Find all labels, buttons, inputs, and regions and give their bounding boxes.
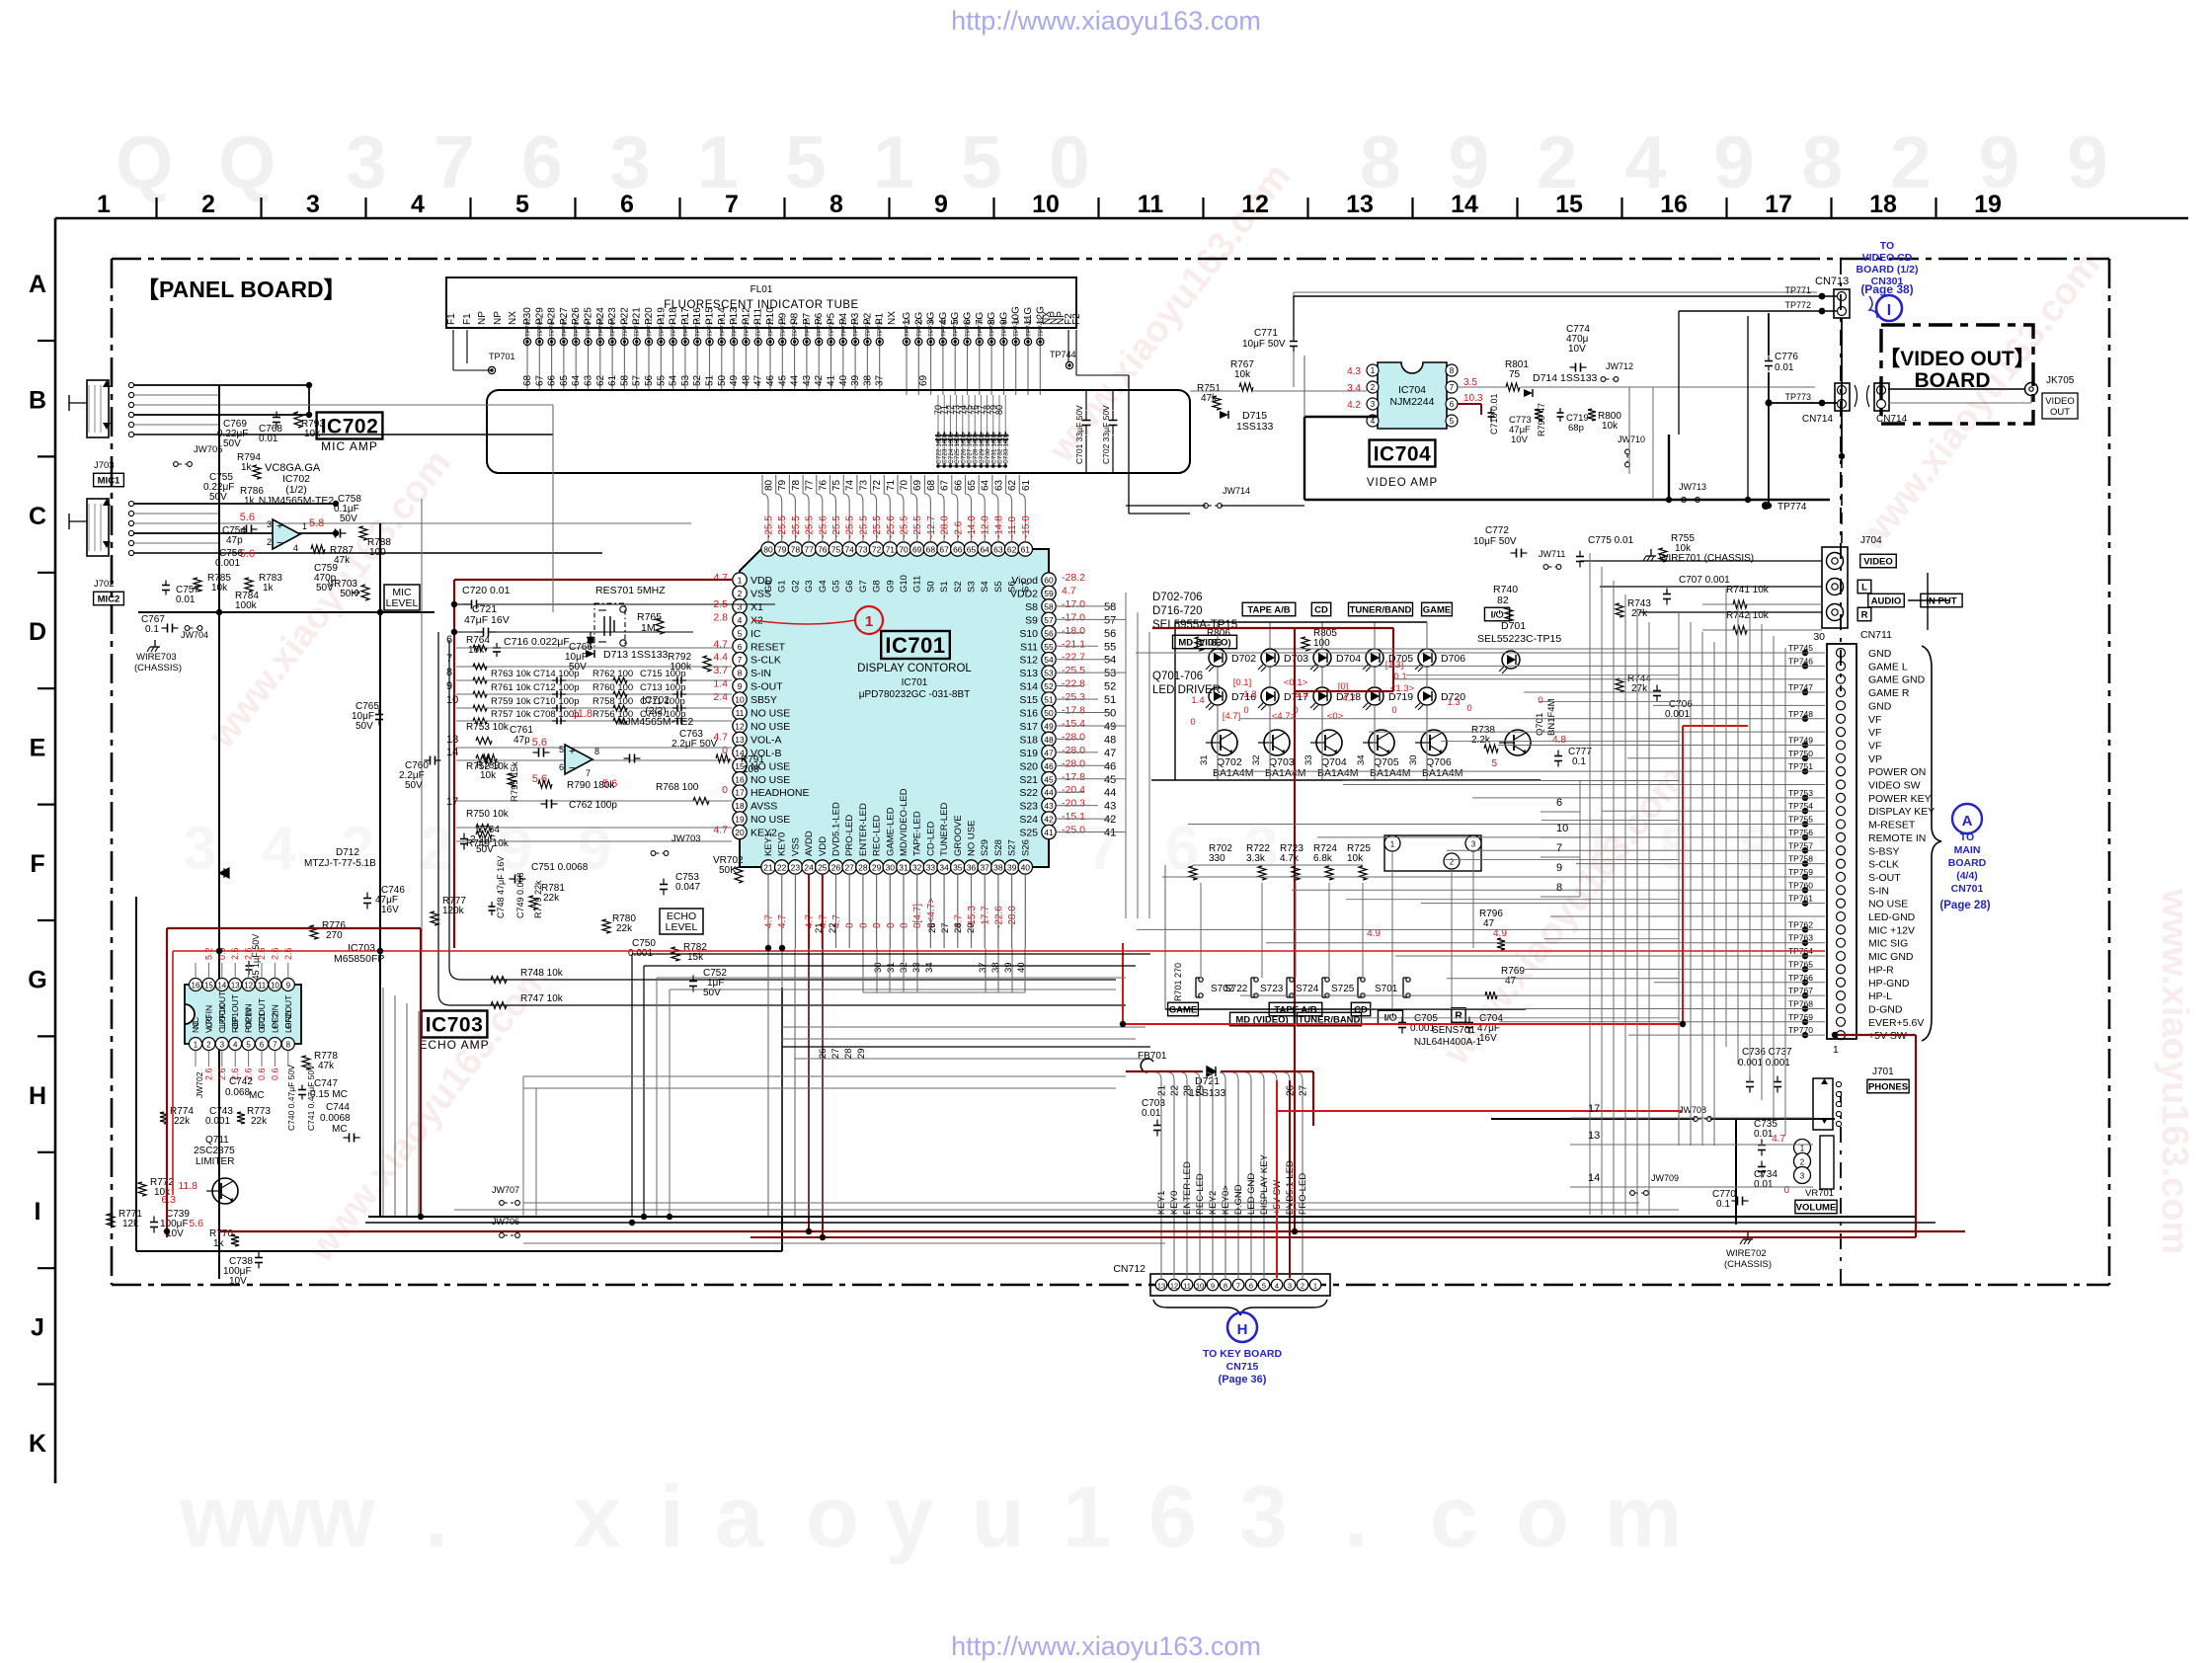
svg-text:CN714: CN714 [1802, 414, 1834, 425]
LED D705 [1366, 649, 1383, 667]
svg-text:S14: S14 [1019, 681, 1038, 693]
svg-text:TP722: TP722 [768, 317, 775, 337]
CN712 wire bundle [1160, 1080, 1162, 1278]
svg-text:54: 54 [1044, 655, 1054, 665]
svg-text:1k: 1k [241, 462, 253, 473]
svg-text:WIRE703: WIRE703 [136, 652, 177, 663]
svg-text:-28.0: -28.0 [1007, 906, 1018, 928]
svg-text:9: 9 [1817, 815, 1851, 883]
svg-text:68p: 68p [1568, 423, 1584, 434]
svg-text:D702: D702 [1231, 653, 1256, 665]
svg-text:7: 7 [586, 768, 591, 778]
svg-text:S13: S13 [1019, 668, 1038, 679]
svg-text:42: 42 [814, 374, 825, 386]
blue callout circle A [1952, 804, 1982, 833]
wire from F2 to right area [1128, 375, 1130, 514]
svg-text:TO: TO [1960, 831, 1974, 843]
svg-text:G1: G1 [777, 580, 788, 593]
svg-text:D714 1SS133: D714 1SS133 [1533, 372, 1598, 384]
svg-text:S27: S27 [1007, 839, 1018, 856]
svg-text:80: 80 [764, 479, 775, 491]
svg-text:10V: 10V [1568, 344, 1586, 355]
svg-text:【PANEL BOARD】: 【PANEL BOARD】 [136, 277, 347, 302]
svg-text:12: 12 [1241, 191, 1269, 218]
svg-text:0: 0 [1391, 705, 1396, 716]
svg-text:13: 13 [1346, 191, 1374, 218]
svg-text:NO USE: NO USE [750, 774, 790, 786]
IC703 top pins 16-9 [190, 979, 202, 991]
remote sensor SENS701 [1384, 835, 1481, 871]
svg-text:I: I [1887, 302, 1891, 319]
svg-text:KEY0: KEY0 [777, 832, 788, 856]
blue note TO MAIN BOARD [1948, 831, 1987, 895]
panel board dash-dot border [112, 259, 2109, 1285]
svg-text:JW706: JW706 [492, 1217, 519, 1227]
svg-text:TP747: TP747 [1788, 682, 1813, 692]
svg-text:KEY1: KEY1 [763, 832, 774, 856]
svg-text:4.7k: 4.7k [1280, 853, 1300, 864]
svg-text:53: 53 [1044, 669, 1054, 678]
svg-text:18: 18 [735, 801, 745, 811]
svg-text:R763 10k: R763 10k [491, 669, 531, 679]
svg-text:68: 68 [926, 479, 937, 491]
svg-text:47: 47 [1044, 748, 1054, 757]
svg-text:TP704: TP704 [549, 317, 556, 337]
IC701 top pin signal names [763, 575, 1031, 593]
maroon MD VIDEO wire [1152, 627, 1393, 629]
svg-text:46: 46 [765, 374, 776, 386]
svg-text:2.6: 2.6 [203, 1068, 213, 1080]
svg-text:BA1A4M: BA1A4M [1213, 767, 1253, 779]
top ruler ticks [155, 198, 157, 218]
svg-text:12: 12 [1170, 1282, 1178, 1291]
svg-text:44: 44 [1104, 787, 1116, 799]
transistor Q703 [1264, 730, 1290, 755]
svg-text:TO KEY BOARD: TO KEY BOARD [1203, 1348, 1283, 1360]
svg-text:4.7: 4.7 [777, 914, 788, 928]
svg-text:S5: S5 [993, 581, 1004, 593]
svg-text:13: 13 [735, 735, 745, 745]
svg-text:GND: GND [1868, 648, 1892, 660]
svg-text:VDD: VDD [818, 836, 829, 856]
svg-text:S-CLK: S-CLK [1868, 859, 1899, 871]
IC701 label box [881, 631, 950, 659]
svg-text:SEL55223C-TP15: SEL55223C-TP15 [1477, 633, 1561, 645]
svg-text:2.6: 2.6 [270, 947, 279, 960]
svg-text:S18: S18 [1019, 734, 1038, 746]
svg-text:TP760: TP760 [1788, 880, 1813, 890]
svg-text:C744: C744 [326, 1102, 350, 1113]
TUNER/BAND mode box lower [1298, 1012, 1362, 1026]
svg-text:4: 4 [738, 615, 743, 625]
svg-text:C742: C742 [229, 1076, 253, 1087]
svg-text:HP-L: HP-L [1868, 990, 1892, 1002]
svg-text:14: 14 [446, 747, 458, 758]
op-amp IC702a [273, 519, 300, 549]
svg-text:0.1: 0.1 [1716, 1199, 1730, 1210]
svg-text:-25.5: -25.5 [777, 515, 788, 538]
svg-text:S24: S24 [1019, 814, 1038, 826]
svg-text:o: o [1516, 1467, 1569, 1565]
svg-text:JW703: JW703 [671, 833, 701, 844]
LED D702 [1209, 649, 1226, 667]
svg-text:-25.6: -25.6 [818, 515, 829, 538]
svg-text:C701 33μF 50V: C701 33μF 50V [1074, 405, 1084, 464]
svg-text:BN1F4M: BN1F4M [1546, 698, 1557, 736]
svg-text:TUNER/BAND: TUNER/BAND [1350, 604, 1412, 615]
right zone vertical wires [1725, 589, 1727, 1047]
svg-text:7: 7 [1236, 1282, 1240, 1291]
svg-text:8: 8 [1738, 815, 1772, 883]
svg-text:4: 4 [1371, 417, 1376, 426]
svg-text:2.2k: 2.2k [1471, 735, 1491, 746]
svg-text:C707 0.001: C707 0.001 [1679, 575, 1730, 586]
svg-text:67: 67 [940, 479, 951, 491]
svg-text:WIRE701 (CHASSIS): WIRE701 (CHASSIS) [1659, 553, 1754, 564]
svg-text:4.7: 4.7 [713, 572, 728, 584]
svg-text:10k: 10k [154, 1187, 171, 1198]
svg-text:S16: S16 [1019, 708, 1038, 720]
left vertical bus wire [218, 385, 220, 1279]
svg-text:J702: J702 [94, 579, 115, 590]
svg-text:3: 3 [220, 1041, 225, 1050]
svg-text:TP767: TP767 [1788, 986, 1813, 995]
svg-text:D703: D703 [1284, 653, 1308, 665]
svg-text:3.5: 3.5 [1463, 377, 1477, 388]
svg-text:5: 5 [1262, 1282, 1266, 1291]
wire bundle left of IC701 wrap-around [449, 640, 1116, 980]
svg-text:MAIN: MAIN [1954, 844, 1981, 856]
svg-text:7: 7 [725, 191, 739, 218]
svg-text:C771: C771 [1254, 328, 1278, 339]
junction dots [216, 609, 222, 615]
FL01 pin name labels [446, 306, 1082, 325]
svg-text:G5: G5 [831, 580, 842, 593]
switch row bus wire [1165, 1008, 1526, 1010]
svg-text:DISPLAY CONTOROL: DISPLAY CONTOROL [857, 663, 972, 674]
svg-text:15: 15 [1555, 191, 1583, 218]
svg-text:-15.1: -15.1 [1062, 811, 1085, 823]
svg-text:S-CLK: S-CLK [750, 655, 781, 667]
IC701 bottom pins 21-40 [761, 860, 775, 874]
transistor Q702 [1212, 730, 1237, 755]
MIC LEVEL box [384, 585, 420, 610]
svg-text:−: − [276, 537, 282, 549]
svg-text:G: G [28, 966, 46, 993]
svg-text:TP707: TP707 [586, 317, 592, 337]
svg-text:MIC AMP: MIC AMP [321, 439, 378, 453]
chassis ground WIRE702 [1747, 1232, 1749, 1239]
svg-text:MIC2: MIC2 [98, 594, 120, 604]
display control IC701 body [740, 549, 1049, 867]
svg-text:27: 27 [830, 1048, 841, 1059]
connector CN714 left [1835, 383, 1850, 411]
svg-text:1: 1 [97, 191, 111, 218]
svg-text:TP735: TP735 [940, 317, 947, 337]
svg-text:2: 2 [738, 589, 743, 598]
svg-text:D713 1SS133: D713 1SS133 [603, 649, 669, 661]
svg-text:CD-LED: CD-LED [925, 821, 936, 856]
svg-text:ENTER-LED: ENTER-LED [858, 803, 869, 856]
svg-text:7: 7 [1556, 842, 1562, 854]
svg-text:R753 10k: R753 10k [466, 722, 510, 733]
svg-text:-25.0: -25.0 [1062, 825, 1085, 836]
svg-text:NO USE: NO USE [1868, 899, 1908, 911]
svg-text:77: 77 [805, 479, 816, 491]
svg-text:D702-706: D702-706 [1152, 592, 1203, 603]
svg-text:S-IN: S-IN [1868, 885, 1889, 897]
svg-text:22k: 22k [616, 923, 633, 934]
svg-text:JW711: JW711 [1539, 549, 1565, 559]
svg-text:0.0068: 0.0068 [320, 1113, 351, 1124]
svg-text:6: 6 [1556, 797, 1562, 809]
echo amp IC703 DIP body [185, 985, 301, 1044]
svg-text:0.01: 0.01 [1754, 1129, 1774, 1140]
svg-text:-22.8: -22.8 [1062, 678, 1085, 690]
rotated wire numbers mid [814, 922, 1027, 1059]
svg-text:66: 66 [953, 545, 963, 555]
svg-text:5.6: 5.6 [189, 1218, 203, 1229]
test point TP774 [1762, 502, 1770, 510]
svg-text:FL01: FL01 [750, 284, 773, 295]
CN711 pins and labels [1837, 648, 1935, 1042]
svg-text:G11: G11 [912, 576, 923, 593]
svg-text:ECHO AMP: ECHO AMP [419, 1038, 489, 1052]
svg-text:C751 0.0068: C751 0.0068 [531, 862, 589, 873]
svg-text:C718 0.01: C718 0.01 [1489, 393, 1499, 435]
svg-text:C747: C747 [314, 1078, 338, 1089]
svg-text:TP733: TP733 [916, 317, 923, 337]
svg-text:BOARD: BOARD [1948, 857, 1987, 869]
svg-text:S23: S23 [1019, 801, 1038, 813]
svg-text:G2: G2 [790, 580, 801, 593]
svg-text:0.001: 0.001 [205, 1116, 230, 1127]
svg-text:50: 50 [1104, 708, 1116, 720]
svg-text:TP732: TP732 [905, 317, 911, 337]
svg-text:TP723: TP723 [780, 317, 787, 337]
svg-text:28: 28 [843, 1048, 854, 1059]
CN712 brace [1153, 1300, 1327, 1315]
svg-text:6: 6 [559, 762, 564, 772]
svg-text:S29: S29 [980, 839, 990, 856]
svg-text:J701: J701 [1872, 1067, 1894, 1077]
CN711 left wires [1136, 652, 1825, 654]
capacitors C722-C733 100p [935, 395, 1010, 468]
svg-text:1: 1 [302, 521, 307, 531]
svg-text:TP746: TP746 [1788, 656, 1813, 666]
op-amp IC702b [565, 745, 592, 774]
svg-text:20: 20 [735, 828, 745, 837]
svg-text:TP717: TP717 [707, 317, 714, 337]
red callout circle 1 [855, 606, 883, 634]
svg-text:R790 180k: R790 180k [567, 780, 615, 791]
svg-text:10: 10 [1032, 191, 1060, 218]
svg-text:48: 48 [1104, 734, 1116, 746]
svg-text:(Page 28): (Page 28) [1939, 900, 1990, 911]
svg-text:S701: S701 [1375, 984, 1398, 994]
svg-text:10.3: 10.3 [1463, 393, 1483, 404]
svg-text:TP754: TP754 [1788, 801, 1813, 811]
svg-text:65: 65 [967, 479, 978, 491]
jack wiring to bus [134, 384, 309, 386]
svg-text:27: 27 [940, 922, 951, 933]
svg-text:IC701: IC701 [885, 633, 945, 658]
svg-text:GAME R: GAME R [1868, 687, 1910, 699]
svg-text:13: 13 [231, 982, 240, 990]
svg-text:62: 62 [1007, 479, 1018, 491]
transistor Q705 [1369, 730, 1394, 755]
svg-text:1: 1 [1063, 1467, 1111, 1565]
svg-text:72: 72 [872, 545, 882, 555]
svg-text:50: 50 [1044, 708, 1054, 718]
svg-text:<0.1>: <0.1> [1284, 677, 1308, 688]
wires from bus to IC701 top pins [761, 475, 763, 494]
svg-text:49: 49 [729, 374, 740, 386]
svg-text:6: 6 [1450, 400, 1455, 409]
svg-text:TP741: TP741 [1013, 317, 1020, 337]
svg-text:0.01: 0.01 [1775, 362, 1794, 373]
svg-text:0: 0 [722, 745, 728, 756]
svg-text:I/⏻: I/⏻ [1384, 1011, 1397, 1023]
svg-text:25: 25 [818, 863, 828, 873]
transistor Q706 [1421, 730, 1447, 755]
svg-text:F: F [30, 850, 44, 878]
svg-text:【VIDEO OUT】: 【VIDEO OUT】 [1879, 348, 2035, 370]
svg-text:-2.6: -2.6 [953, 520, 964, 538]
svg-text:NP: NP [477, 311, 488, 325]
svg-text:2.6: 2.6 [257, 947, 267, 960]
IC701 top pin red voltages [764, 515, 1032, 538]
svg-text:R748 10k: R748 10k [520, 968, 564, 979]
svg-text:47p: 47p [226, 535, 243, 546]
svg-text:4.7: 4.7 [764, 914, 775, 928]
svg-text:15: 15 [204, 982, 213, 990]
brace to main board [1922, 646, 1941, 1041]
svg-text:8: 8 [1450, 366, 1455, 375]
svg-text:10μF 50V: 10μF 50V [1473, 536, 1517, 547]
svg-text:GROOVE: GROOVE [953, 815, 964, 856]
svg-text:VF: VF [1868, 727, 1881, 739]
svg-text:GAME GND: GAME GND [1868, 674, 1926, 686]
svg-text:2: 2 [1301, 1282, 1304, 1291]
svg-text:TP744: TP744 [1050, 350, 1076, 359]
svg-text:-25.5: -25.5 [791, 515, 802, 538]
svg-text:DVD5.1-LED: DVD5.1-LED [1285, 1160, 1296, 1215]
svg-text:0[4.7]: 0[4.7] [912, 904, 923, 928]
GAME mode box lower [1168, 1002, 1199, 1016]
svg-text:CN714: CN714 [1876, 414, 1908, 425]
svg-text:63: 63 [993, 479, 1004, 491]
svg-text:TAPE-LED: TAPE-LED [912, 811, 923, 856]
svg-text:TP710: TP710 [622, 317, 629, 337]
svg-text:59: 59 [1044, 589, 1054, 598]
svg-text:EVER+5.6V: EVER+5.6V [1868, 1017, 1924, 1029]
svg-text:R768 100: R768 100 [656, 782, 699, 793]
svg-text:GND: GND [283, 1010, 293, 1029]
svg-text:RES701 5MHZ: RES701 5MHZ [595, 585, 666, 596]
connector CN714 right [1874, 383, 1889, 411]
svg-text:REC-LED: REC-LED [872, 815, 883, 856]
svg-text:S10: S10 [1019, 628, 1038, 640]
svg-text:CN711: CN711 [1860, 629, 1892, 641]
svg-text:1M: 1M [641, 622, 656, 634]
svg-text:0.6: 0.6 [257, 1068, 267, 1080]
svg-text:TP761: TP761 [1788, 894, 1813, 904]
svg-text:10k: 10k [1347, 853, 1364, 864]
AUDIO input label [1868, 594, 1905, 607]
svg-text:56: 56 [1104, 628, 1116, 640]
svg-text:18: 18 [1869, 191, 1897, 218]
svg-text:TP773: TP773 [1784, 392, 1811, 402]
svg-text:D706: D706 [1441, 653, 1465, 665]
svg-text:(4/4): (4/4) [1956, 870, 1978, 882]
svg-text:330: 330 [1209, 853, 1225, 864]
svg-text:C712 100p: C712 100p [533, 682, 579, 693]
IC701 right pins 60-41 [1042, 573, 1056, 587]
FL01 pin wires and test points TP702-TP731 [526, 330, 528, 390]
blue callout circle H [1227, 1312, 1257, 1342]
svg-text:50V: 50V [223, 438, 241, 449]
svg-text:TP750: TP750 [1788, 749, 1813, 758]
svg-text:S15: S15 [1019, 694, 1038, 706]
svg-text:[0.1]: [0.1] [1233, 677, 1252, 688]
svg-text:75: 75 [1509, 369, 1521, 380]
svg-text:JW704: JW704 [181, 630, 208, 640]
svg-text:TP765: TP765 [1788, 959, 1813, 969]
transistor Q704 [1316, 730, 1342, 755]
svg-text:51: 51 [1044, 695, 1054, 705]
svg-text:11: 11 [736, 708, 745, 718]
svg-text:D712: D712 [336, 847, 359, 858]
svg-text:VIDEO CD: VIDEO CD [1862, 252, 1913, 264]
svg-text:10k: 10k [1234, 369, 1251, 380]
svg-text:8: 8 [286, 1041, 291, 1050]
svg-text:POWER KEY: POWER KEY [1868, 793, 1932, 805]
svg-text:S28: S28 [993, 839, 1004, 856]
svg-text:62: 62 [595, 374, 606, 386]
svg-text:BOARD (1/2): BOARD (1/2) [1856, 264, 1918, 276]
svg-text:C710 100p: C710 100p [533, 696, 579, 707]
svg-text:0: 0 [1538, 695, 1542, 706]
svg-text:10: 10 [1556, 823, 1568, 834]
svg-text:WIRE702: WIRE702 [1726, 1248, 1767, 1259]
svg-text:82: 82 [1497, 594, 1509, 606]
svg-text:4.3: 4.3 [1347, 366, 1361, 377]
svg-text:TP726: TP726 [817, 317, 824, 337]
svg-text:JW707: JW707 [492, 1185, 519, 1195]
svg-text:8: 8 [1224, 1282, 1227, 1291]
maroon +5V wires right [1837, 1034, 1916, 1036]
maroon wire through FB701 [1126, 1070, 1203, 1072]
svg-text:-28.0: -28.0 [1062, 731, 1085, 743]
svg-text:64: 64 [980, 545, 989, 555]
svg-text:S-OUT: S-OUT [750, 681, 783, 693]
svg-text:K: K [29, 1430, 46, 1458]
svg-text:-28.0: -28.0 [1062, 745, 1085, 756]
svg-text:3: 3 [183, 815, 216, 883]
svg-text:74: 74 [845, 479, 856, 491]
svg-text:2.6: 2.6 [283, 947, 293, 960]
svg-text:-25.5: -25.5 [831, 515, 842, 538]
svg-text:MC: MC [332, 1124, 348, 1135]
blue note TO VIDEO CD BOARD [1856, 240, 1918, 287]
svg-text:w: w [179, 1467, 248, 1565]
ECHO LEVEL box [660, 909, 703, 934]
svg-text:9: 9 [2067, 120, 2108, 203]
svg-text:2: 2 [206, 1041, 211, 1050]
svg-text:S20: S20 [1019, 760, 1038, 772]
svg-text:E: E [30, 735, 46, 762]
